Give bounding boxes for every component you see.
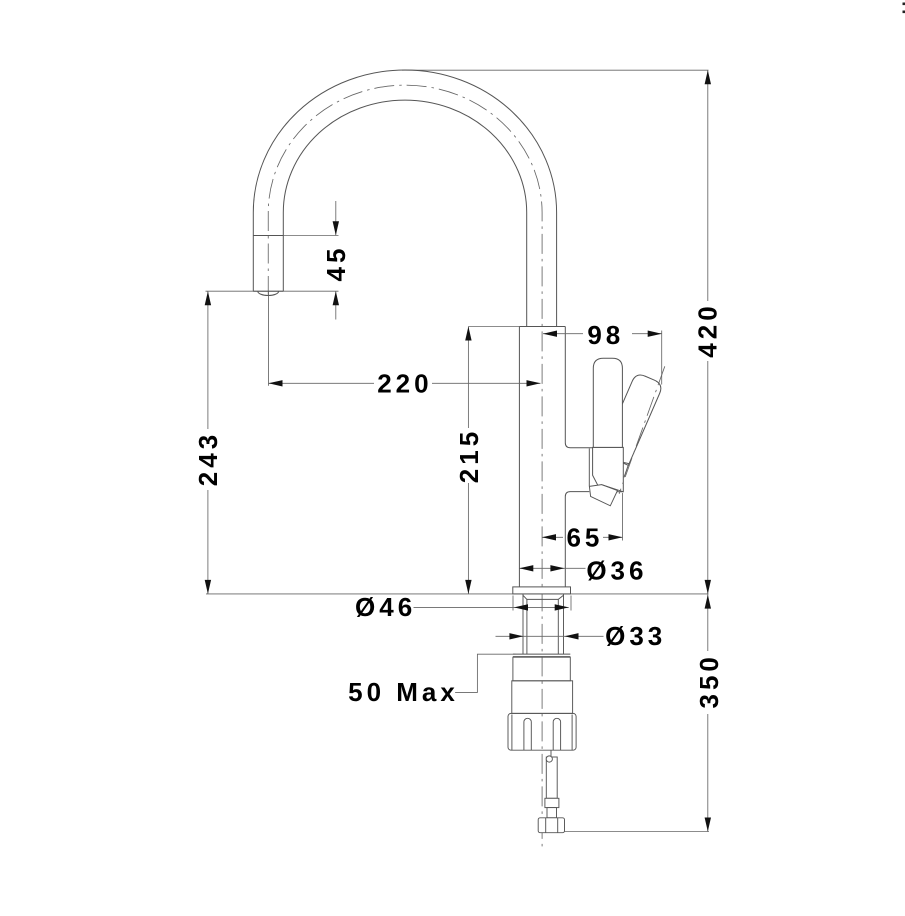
svg-text:220: 220 xyxy=(377,369,432,399)
svg-text:Ø36: Ø36 xyxy=(586,556,647,586)
svg-text:65: 65 xyxy=(566,523,603,553)
svg-text:Ø33: Ø33 xyxy=(605,621,666,651)
svg-text:243: 243 xyxy=(193,431,223,486)
svg-text:50 Max: 50 Max xyxy=(348,677,459,707)
svg-text:420: 420 xyxy=(693,302,723,357)
svg-text:45: 45 xyxy=(321,245,351,282)
svg-text:98: 98 xyxy=(587,320,624,350)
svg-text:350: 350 xyxy=(694,653,724,708)
svg-text:Ø46: Ø46 xyxy=(355,592,416,622)
svg-text:215: 215 xyxy=(454,428,484,483)
